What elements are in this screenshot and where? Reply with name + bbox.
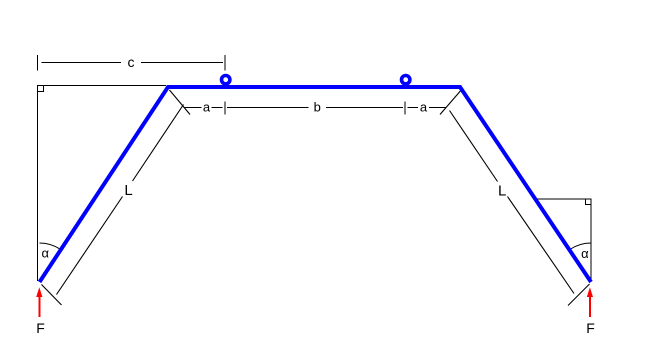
svg-text:F: F (586, 320, 595, 336)
dimension L right line upper segment (450, 111, 498, 182)
dimension tick at second load point (404, 101, 406, 114)
blue frame member polyline (40, 87, 592, 282)
second load point roller circle (402, 76, 410, 84)
dimension c right tick (224, 55, 226, 71)
dimension b line left segment (227, 106, 309, 108)
svg-text:a: a (420, 100, 428, 115)
left construction vertical line (37, 86, 39, 282)
left right-angle marker (38, 86, 44, 92)
dimension tick at first load point (224, 101, 226, 114)
left force arrow shaft (38, 297, 40, 318)
svg-text:F: F (36, 320, 45, 336)
dimension a right line segment 2 (429, 106, 446, 108)
svg-text:α: α (41, 246, 49, 261)
dimension a left line segment 1 (184, 106, 202, 108)
dimension L left line lower segment (57, 197, 123, 295)
left apex extension tick (170, 90, 191, 115)
left angle arc (40, 243, 61, 249)
dimension a left line segment 2 (212, 106, 223, 108)
dimension c line right segment (141, 62, 223, 64)
dimension c line left segment (42, 62, 122, 64)
dimension L right line lower segment (508, 197, 575, 294)
dimension a right line segment 1 (408, 106, 419, 108)
left force arrow head (36, 287, 42, 297)
left bottom extension tick (42, 285, 62, 306)
right right-angle marker (586, 199, 592, 205)
right apex extension tick (440, 91, 461, 115)
dimension L left line upper segment (133, 105, 184, 182)
svg-text:c: c (128, 54, 135, 70)
svg-text:a: a (203, 100, 211, 115)
right construction horizontal line (536, 198, 591, 200)
svg-text:α: α (581, 246, 589, 261)
dimension c left tick (37, 55, 39, 71)
right construction vertical line (590, 199, 592, 280)
first load point roller circle (222, 76, 230, 84)
svg-text:b: b (314, 100, 321, 115)
svg-text:L: L (124, 182, 132, 199)
svg-text:L: L (498, 183, 506, 200)
left construction horizontal line (38, 85, 167, 87)
dimension b line right segment (326, 106, 403, 108)
right bottom extension tick (568, 284, 590, 306)
right angle arc (570, 243, 591, 250)
right force arrow shaft (589, 297, 591, 318)
right force arrow head (587, 287, 593, 297)
